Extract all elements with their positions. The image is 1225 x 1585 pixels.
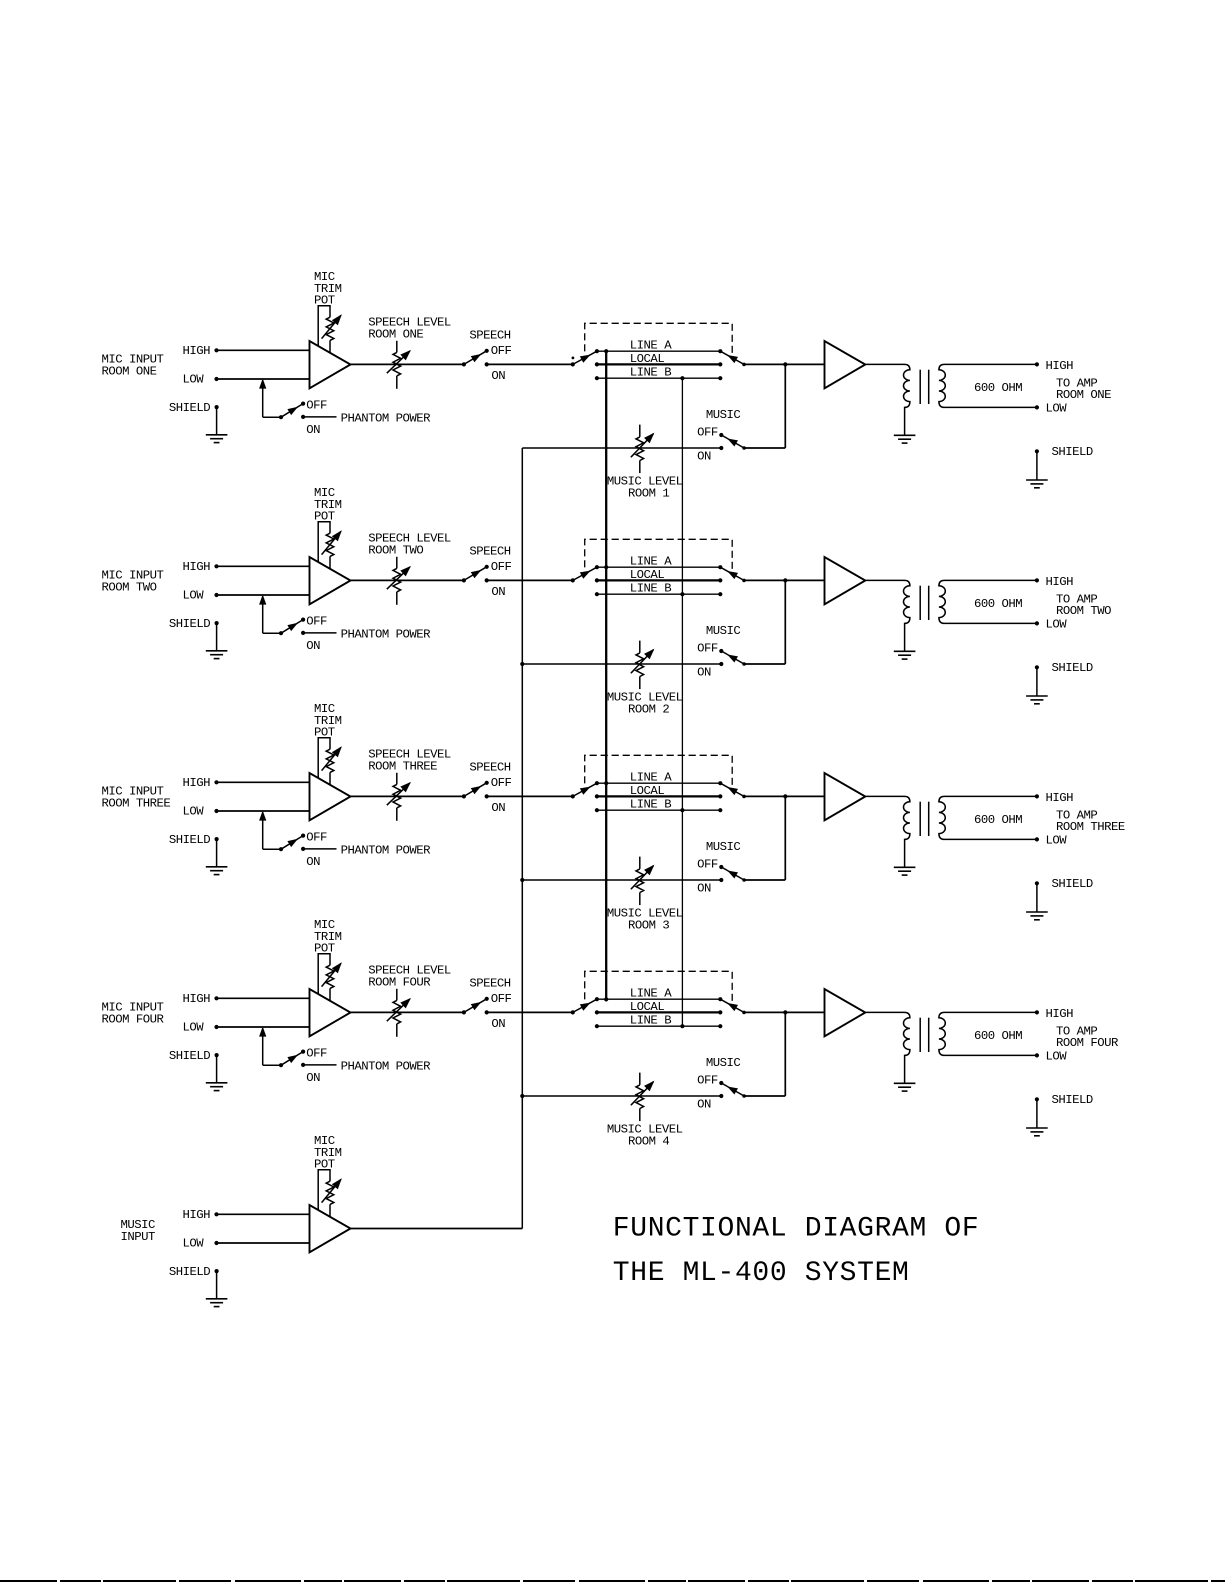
- svg-text:ROOM THREE: ROOM THREE: [1056, 820, 1125, 834]
- label LINE A: [630, 339, 672, 353]
- ground: [1026, 912, 1048, 920]
- speech switch room 3: [462, 781, 489, 799]
- mic input LOW pin room 4: [183, 1021, 219, 1035]
- label ON: [306, 1071, 320, 1085]
- label ON: [491, 1017, 505, 1031]
- wire: [744, 363, 825, 365]
- svg-text:ON: ON: [491, 585, 505, 599]
- output amp room 2: [825, 557, 866, 604]
- wire: [487, 1011, 573, 1013]
- wire: [351, 1011, 464, 1013]
- wire LOCAL: [597, 795, 720, 797]
- label ON: [697, 881, 711, 895]
- wire: [217, 1026, 310, 1028]
- mic trim pot room 3: [318, 738, 341, 785]
- svg-text:ON: ON: [697, 449, 711, 463]
- svg-text:HIGH: HIGH: [1046, 1007, 1074, 1021]
- output amp room 1: [825, 341, 866, 388]
- wire: [217, 810, 310, 812]
- wire: [216, 1271, 218, 1299]
- label SPEECH: [469, 977, 510, 991]
- label MUSIC: [706, 624, 741, 638]
- svg-text:ROOM THREE: ROOM THREE: [102, 796, 171, 810]
- svg-text:ON: ON: [306, 423, 320, 437]
- svg-text:MUSIC: MUSIC: [706, 624, 741, 638]
- node music bus tap: [520, 1094, 524, 1098]
- label ON: [306, 639, 320, 653]
- transformer T1 secondary: [939, 364, 1037, 407]
- wire: [744, 364, 785, 448]
- label ON: [697, 665, 711, 679]
- wire LOCAL: [597, 363, 720, 365]
- svg-text:ON: ON: [697, 881, 711, 895]
- label MUSIC: [706, 1056, 741, 1070]
- output LOW pin room 1: [1035, 402, 1067, 416]
- svg-text:LOW: LOW: [183, 1237, 205, 1251]
- label MIC TRIM POT: [314, 918, 342, 955]
- line select dashed box: [585, 539, 733, 573]
- wire LINE A: [597, 350, 720, 352]
- label SPEECH: [469, 329, 510, 343]
- transformer T4 primary: [865, 1012, 910, 1083]
- music switch room 3: [719, 865, 746, 882]
- svg-text:HIGH: HIGH: [1046, 359, 1074, 373]
- wire: [217, 378, 310, 380]
- svg-text:ROOM THREE: ROOM THREE: [368, 760, 437, 774]
- svg-text:MUSIC: MUSIC: [706, 840, 741, 854]
- svg-text:SPEECH: SPEECH: [469, 545, 510, 559]
- wire LOCAL: [597, 1011, 720, 1013]
- svg-text:HIGH: HIGH: [183, 560, 211, 574]
- label ON: [306, 855, 320, 869]
- svg-text:ROOM 4: ROOM 4: [628, 1134, 669, 1148]
- music switch room 4: [719, 1081, 746, 1098]
- wire: [744, 1012, 785, 1096]
- label LINE A: [630, 555, 672, 569]
- label LOCAL: [630, 1000, 665, 1014]
- output SHIELD room 2: [1035, 661, 1093, 696]
- phantom power switch room 2: [279, 618, 305, 636]
- node: [783, 794, 787, 798]
- line selector switch left room 1: [571, 349, 599, 380]
- wire: [217, 997, 310, 999]
- label TO AMP ROOM FOUR: [1056, 1024, 1119, 1050]
- label MIC INPUT ROOM TWO: [102, 569, 164, 595]
- label MIC TRIM POT: [314, 702, 342, 739]
- label TO AMP ROOM ONE: [1056, 376, 1111, 402]
- bus music feed: [521, 448, 523, 1229]
- output SHIELD room 4: [1035, 1093, 1093, 1128]
- mic input HIGH pin room 4: [183, 992, 219, 1006]
- wire: [487, 795, 573, 797]
- music input HIGH pin: [183, 1208, 219, 1222]
- bus LINE B: [680, 376, 684, 1028]
- svg-text:SPEECH: SPEECH: [469, 977, 510, 991]
- svg-text:OFF: OFF: [491, 992, 512, 1006]
- output SHIELD room 1: [1035, 445, 1093, 480]
- mic preamp room 2: [310, 557, 351, 604]
- wire: [351, 363, 464, 365]
- svg-text:SHIELD: SHIELD: [169, 1265, 210, 1279]
- wire LINE A: [597, 566, 720, 568]
- svg-text:OFF: OFF: [491, 776, 512, 790]
- svg-text:SPEECH: SPEECH: [469, 761, 510, 775]
- ground: [1026, 1128, 1048, 1136]
- svg-text:LOW: LOW: [1046, 618, 1068, 632]
- label MIC INPUT ROOM ONE: [102, 353, 164, 379]
- label ON: [306, 423, 320, 437]
- label OFF: [306, 830, 327, 844]
- wire: [744, 795, 825, 797]
- svg-text:MUSIC: MUSIC: [706, 1056, 741, 1070]
- mic input SHIELD pin room 3: [169, 833, 219, 847]
- mic input HIGH pin room 1: [183, 344, 219, 358]
- music input SHIELD pin: [169, 1265, 219, 1279]
- label MIC TRIM POT: [314, 1134, 342, 1171]
- svg-text:ROOM FOUR: ROOM FOUR: [368, 976, 431, 990]
- svg-text:LOW: LOW: [1046, 1050, 1068, 1064]
- svg-text:SHIELD: SHIELD: [169, 1049, 210, 1063]
- label OFF: [697, 858, 718, 872]
- output LOW pin room 2: [1035, 618, 1067, 632]
- transformer T1 core: [920, 370, 929, 404]
- svg-text:SPEECH: SPEECH: [469, 329, 510, 343]
- wire: [217, 349, 310, 351]
- transformer T2 core: [920, 586, 929, 620]
- svg-text:OFF: OFF: [697, 642, 718, 656]
- svg-text:PHANTOM POWER: PHANTOM POWER: [341, 844, 432, 858]
- ground: [894, 867, 916, 875]
- transformer T4 core: [920, 1018, 929, 1052]
- mic input LOW pin room 1: [183, 373, 219, 387]
- page edge: [0, 1580, 1225, 1582]
- label MIC TRIM POT: [314, 486, 342, 523]
- svg-text:SHIELD: SHIELD: [1052, 877, 1093, 891]
- line select dashed box: [585, 755, 733, 789]
- phantom power switch room 3: [279, 834, 305, 852]
- label LOCAL: [630, 568, 665, 582]
- transformer T2 secondary: [939, 580, 1037, 623]
- node: [783, 362, 787, 366]
- mic input SHIELD pin room 2: [169, 617, 219, 631]
- svg-text:HIGH: HIGH: [1046, 575, 1074, 589]
- wire: [303, 848, 336, 850]
- node: [783, 1010, 787, 1014]
- wire: [216, 839, 218, 867]
- svg-text:HIGH: HIGH: [183, 776, 211, 790]
- label OFF: [491, 776, 512, 790]
- ground: [894, 435, 916, 443]
- music trim pot: [318, 1170, 341, 1217]
- svg-text:ROOM TWO: ROOM TWO: [368, 544, 423, 558]
- svg-text:OFF: OFF: [697, 858, 718, 872]
- music level pot room 1: [631, 425, 654, 474]
- svg-text:SHIELD: SHIELD: [1052, 1093, 1093, 1107]
- svg-text:OFF: OFF: [306, 1046, 327, 1060]
- svg-text:HIGH: HIGH: [183, 1208, 211, 1222]
- wire: [522, 447, 721, 449]
- wire LINE B: [597, 1025, 720, 1027]
- svg-text:THE ML-400 SYSTEM: THE ML-400 SYSTEM: [613, 1258, 910, 1289]
- svg-text:ROOM FOUR: ROOM FOUR: [1056, 1036, 1119, 1050]
- label 600 OHM: [974, 597, 1022, 611]
- wire: [522, 1095, 721, 1097]
- label OFF: [491, 560, 512, 574]
- svg-text:SHIELD: SHIELD: [169, 617, 210, 631]
- output HIGH pin room 4: [1035, 1007, 1073, 1021]
- label SPEECH LEVEL ROOM ONE: [368, 316, 451, 342]
- line selector switch right room 4: [718, 997, 746, 1028]
- line selector switch left room 4: [571, 997, 599, 1028]
- ground: [206, 651, 228, 659]
- svg-text:HIGH: HIGH: [183, 992, 211, 1006]
- svg-text:ON: ON: [306, 1071, 320, 1085]
- output LOW pin room 4: [1035, 1050, 1067, 1064]
- wire: [217, 565, 310, 567]
- mic input LOW pin room 2: [183, 589, 219, 603]
- music level pot room 4: [631, 1073, 654, 1122]
- label ON: [491, 801, 505, 815]
- label LINE A: [630, 987, 672, 1001]
- wire: [487, 363, 573, 365]
- label PHANTOM POWER: [341, 844, 432, 858]
- label OFF: [697, 426, 718, 440]
- label SPEECH: [469, 545, 510, 559]
- music switch room 2: [719, 649, 746, 666]
- line selector switch right room 3: [718, 781, 746, 812]
- wire: [303, 416, 336, 418]
- wire: [216, 1055, 218, 1083]
- label MUSIC LEVEL ROOM 4: [607, 1122, 683, 1148]
- mic trim pot room 2: [318, 522, 341, 569]
- svg-text:ON: ON: [697, 665, 711, 679]
- transformer T3 primary: [865, 796, 910, 867]
- mic input HIGH pin room 2: [183, 560, 219, 574]
- output HIGH pin room 3: [1035, 791, 1073, 805]
- mic preamp room 4: [310, 989, 351, 1036]
- svg-text:ROOM ONE: ROOM ONE: [368, 328, 423, 342]
- svg-text:LOW: LOW: [183, 373, 205, 387]
- wire: [260, 1028, 281, 1065]
- line selector switch left room 3: [571, 781, 599, 812]
- node music bus tap: [520, 662, 524, 666]
- svg-text:OFF: OFF: [697, 426, 718, 440]
- label LOCAL: [630, 784, 665, 798]
- transformer T1 primary: [865, 364, 910, 435]
- label PHANTOM POWER: [341, 412, 432, 426]
- label PHANTOM POWER: [341, 628, 432, 642]
- output HIGH pin room 1: [1035, 359, 1073, 373]
- svg-text:LOW: LOW: [183, 589, 205, 603]
- wire: [303, 1064, 336, 1066]
- svg-text:ROOM ONE: ROOM ONE: [1056, 388, 1111, 402]
- wire: [744, 1011, 825, 1013]
- wire: [217, 1213, 310, 1215]
- svg-text:600 OHM: 600 OHM: [974, 597, 1022, 611]
- label MUSIC LEVEL ROOM 3: [607, 906, 683, 932]
- phantom power switch room 4: [279, 1050, 305, 1068]
- speech switch room 4: [462, 997, 489, 1015]
- mic trim pot room 4: [318, 954, 341, 1001]
- svg-text:600 OHM: 600 OHM: [974, 381, 1022, 395]
- wire: [351, 795, 464, 797]
- label TO AMP ROOM THREE: [1056, 808, 1125, 834]
- svg-text:PHANTOM POWER: PHANTOM POWER: [341, 412, 432, 426]
- ground: [206, 1083, 228, 1091]
- mic preamp room 1: [310, 341, 351, 388]
- svg-text:ON: ON: [491, 801, 505, 815]
- music switch room 1: [719, 433, 746, 450]
- node momentary mark: [572, 357, 575, 360]
- transformer T2 primary: [865, 580, 910, 651]
- label ON: [697, 1097, 711, 1111]
- label OFF: [306, 614, 327, 628]
- wire: [260, 596, 281, 633]
- output amp room 4: [825, 989, 866, 1036]
- title line 2: [613, 1258, 910, 1289]
- wire: [744, 580, 785, 664]
- ground: [206, 435, 228, 443]
- line select dashed box: [585, 971, 733, 1005]
- speech level pot room 2: [387, 557, 410, 605]
- svg-text:OFF: OFF: [491, 344, 512, 358]
- svg-text:ON: ON: [491, 369, 505, 383]
- speech level pot room 3: [387, 773, 410, 821]
- speech switch room 2: [462, 565, 489, 583]
- mic input HIGH pin room 3: [183, 776, 219, 790]
- speech switch room 1: [462, 349, 489, 367]
- label ON: [697, 449, 711, 463]
- mic input SHIELD pin room 4: [169, 1049, 219, 1063]
- svg-text:ON: ON: [306, 639, 320, 653]
- svg-text:ROOM TWO: ROOM TWO: [102, 580, 157, 594]
- label 600 OHM: [974, 1029, 1022, 1043]
- label ON: [491, 369, 505, 383]
- wire: [351, 579, 464, 581]
- music level pot room 3: [631, 857, 654, 906]
- svg-text:LOW: LOW: [1046, 402, 1068, 416]
- mic preamp room 3: [310, 773, 351, 820]
- label OFF: [491, 992, 512, 1006]
- wire LINE A: [597, 998, 720, 1000]
- phantom power switch room 1: [279, 402, 305, 420]
- wire: [216, 623, 218, 651]
- svg-text:HIGH: HIGH: [1046, 791, 1074, 805]
- transformer T3 secondary: [939, 796, 1037, 839]
- label MIC INPUT ROOM THREE: [102, 785, 171, 811]
- wire: [351, 1228, 523, 1230]
- label OFF: [697, 642, 718, 656]
- label MUSIC LEVEL ROOM 1: [607, 474, 683, 500]
- label LOCAL: [630, 352, 665, 366]
- svg-text:SHIELD: SHIELD: [1052, 445, 1093, 459]
- svg-text:ROOM 2: ROOM 2: [628, 702, 669, 716]
- transformer T4 secondary: [939, 1012, 1037, 1055]
- label 600 OHM: [974, 813, 1022, 827]
- output SHIELD room 3: [1035, 877, 1093, 912]
- music preamp: [310, 1205, 351, 1252]
- svg-text:ON: ON: [697, 1097, 711, 1111]
- wire: [744, 796, 785, 880]
- wire: [744, 579, 825, 581]
- svg-text:ON: ON: [306, 855, 320, 869]
- wire: [522, 879, 721, 881]
- wire LOCAL: [597, 579, 720, 581]
- wire: [260, 380, 281, 417]
- wire LINE B: [597, 809, 720, 811]
- svg-text:PHANTOM POWER: PHANTOM POWER: [341, 628, 432, 642]
- line selector switch right room 2: [718, 565, 746, 596]
- ground: [206, 867, 228, 875]
- wire: [217, 781, 310, 783]
- label OFF: [306, 1046, 327, 1060]
- label PHANTOM POWER: [341, 1060, 432, 1074]
- svg-text:600 OHM: 600 OHM: [974, 1029, 1022, 1043]
- label SPEECH LEVEL ROOM THREE: [368, 748, 451, 774]
- wire: [487, 579, 573, 581]
- svg-text:OFF: OFF: [306, 614, 327, 628]
- svg-text:ROOM ONE: ROOM ONE: [102, 364, 157, 378]
- output amp room 3: [825, 773, 866, 820]
- ground: [894, 1083, 916, 1091]
- svg-text:LOW: LOW: [1046, 834, 1068, 848]
- output HIGH pin room 2: [1035, 575, 1073, 589]
- svg-text:OFF: OFF: [306, 398, 327, 412]
- svg-text:MUSIC: MUSIC: [706, 408, 741, 422]
- wire LINE B: [597, 593, 720, 595]
- label TO AMP ROOM TWO: [1056, 592, 1111, 618]
- svg-text:ROOM 3: ROOM 3: [628, 918, 669, 932]
- wire: [260, 812, 281, 849]
- wire: [303, 632, 336, 634]
- label SPEECH: [469, 761, 510, 775]
- node: [783, 578, 787, 582]
- svg-text:HIGH: HIGH: [183, 344, 211, 358]
- mic trim pot room 1: [318, 306, 341, 353]
- svg-text:OFF: OFF: [697, 1074, 718, 1088]
- svg-text:SHIELD: SHIELD: [169, 833, 210, 847]
- title line 1: [613, 1213, 980, 1244]
- label LINE B: [630, 798, 671, 812]
- wire: [217, 594, 310, 596]
- label ON: [491, 585, 505, 599]
- ground: [1026, 696, 1048, 704]
- svg-text:600 OHM: 600 OHM: [974, 813, 1022, 827]
- label LINE B: [630, 1014, 671, 1028]
- svg-text:PHANTOM POWER: PHANTOM POWER: [341, 1060, 432, 1074]
- label LINE B: [630, 366, 671, 380]
- label MIC INPUT ROOM FOUR: [102, 1001, 165, 1027]
- label MIC TRIM POT: [314, 270, 342, 307]
- line selector switch left room 2: [571, 565, 599, 596]
- wire: [217, 1242, 310, 1244]
- svg-text:SHIELD: SHIELD: [1052, 661, 1093, 675]
- wire: [216, 407, 218, 435]
- line selector switch right room 1: [718, 349, 746, 380]
- ground: [894, 651, 916, 659]
- speech level pot room 1: [387, 341, 410, 389]
- label SPEECH LEVEL ROOM FOUR: [368, 964, 451, 990]
- wire LINE A: [597, 782, 720, 784]
- svg-text:ROOM 1: ROOM 1: [628, 486, 669, 500]
- label OFF: [697, 1074, 718, 1088]
- label MUSIC LEVEL ROOM 2: [607, 690, 683, 716]
- svg-text:LOW: LOW: [183, 1021, 205, 1035]
- svg-text:FUNCTIONAL DIAGRAM OF: FUNCTIONAL DIAGRAM OF: [613, 1213, 980, 1244]
- ground: [206, 1299, 228, 1307]
- label OFF: [491, 344, 512, 358]
- wire: [522, 663, 721, 665]
